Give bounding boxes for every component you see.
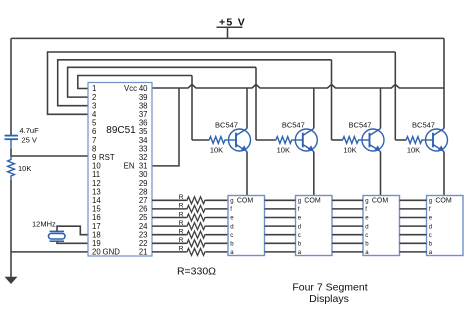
wire: Rd to display1 xyxy=(206,225,228,227)
label R (c) xyxy=(179,229,184,236)
svg-text:R: R xyxy=(179,211,184,218)
svg-text:R: R xyxy=(179,203,184,210)
wire: rail from P1.0 pin1 to Q1 base xyxy=(78,76,192,141)
svg-text:d: d xyxy=(429,224,432,230)
display DS4 7-segment xyxy=(427,196,464,256)
svg-text:Four 7 Segment: Four 7 Segment xyxy=(292,281,367,293)
wire: pin24 to Rd xyxy=(152,225,186,227)
resistor 10K base Q1 xyxy=(209,137,226,144)
wire: Ra to display1 xyxy=(206,251,228,253)
svg-text:R=330Ω: R=330Ω xyxy=(177,266,216,278)
svg-text:Vcc: Vcc xyxy=(124,84,137,93)
wire: rail from P1.3 pin4 to Q4 base xyxy=(48,52,396,140)
svg-text:g: g xyxy=(230,199,233,205)
label 10K base Q1 xyxy=(210,146,223,155)
wire: Rg to display1 xyxy=(206,199,228,201)
svg-text:Displays: Displays xyxy=(309,293,349,305)
wire: Q1 emitter to display COM xyxy=(246,152,248,196)
wire: crystal top to pin18 xyxy=(57,226,88,235)
svg-text:c: c xyxy=(298,233,301,239)
svg-text:c: c xyxy=(429,233,432,239)
svg-text:d: d xyxy=(230,224,233,230)
IC U1 right pin numbers 40-21 xyxy=(139,84,148,256)
resistor R f 330ohm xyxy=(186,205,206,212)
wire: pin25 to Re xyxy=(152,217,186,219)
wire: Q1 base feed xyxy=(192,139,209,141)
resistor 10K base Q4 xyxy=(406,137,423,144)
crystal X1 12MHz xyxy=(49,231,66,241)
wire: C1 to RST node xyxy=(10,139,12,156)
svg-text:COM: COM xyxy=(435,197,452,204)
wire: +5V top rail xyxy=(11,37,444,39)
wire: Rb to display1 xyxy=(206,242,228,244)
svg-text:COM: COM xyxy=(237,197,254,204)
svg-text:c: c xyxy=(230,233,233,239)
wire: 10K to GND rail xyxy=(10,180,12,252)
label R (a) xyxy=(179,246,184,253)
label COM DS2 xyxy=(304,197,321,204)
resistor 10K RST pulldown xyxy=(8,156,15,180)
svg-text:R: R xyxy=(179,229,184,236)
label 10K pulldown xyxy=(18,164,31,173)
wire: pin27 to Rg xyxy=(152,199,186,201)
wire: segment bus DS3 to DS4 xyxy=(400,200,427,252)
label BC547 Q3 xyxy=(349,121,372,130)
wire: VCC line pin40 to collectors (with hops) xyxy=(152,84,444,88)
resistor R e 330ohm xyxy=(186,214,206,221)
wire: GND rail to pin20 xyxy=(11,251,88,253)
svg-text:d: d xyxy=(298,224,301,230)
IC U1 part number 89C51 xyxy=(106,125,136,136)
wire: pin26 to Rf xyxy=(152,208,186,210)
label 12MHz xyxy=(32,220,56,229)
svg-text:10K: 10K xyxy=(18,164,31,173)
wire: Q3 emitter to display COM xyxy=(380,152,382,196)
label R (f) xyxy=(179,203,184,210)
label 10K base Q4 xyxy=(407,146,420,155)
wire: Q4 collector to VCC line xyxy=(443,88,445,129)
label R (b) xyxy=(179,237,184,244)
wire: segment bus DS1 to DS2 xyxy=(265,200,296,252)
resistor R c 330ohm xyxy=(186,231,206,238)
wire: Q4 emitter to display COM xyxy=(443,152,445,196)
power symbol +5V xyxy=(217,17,247,39)
resistor R g 330ohm xyxy=(186,197,206,204)
label BC547 Q2 xyxy=(282,121,305,130)
wire: crystal bottom to pin19 xyxy=(57,241,88,243)
resistor R a 330ohm xyxy=(186,248,206,255)
wire: pin22 to Rb xyxy=(152,242,186,244)
svg-text:R: R xyxy=(179,246,184,253)
svg-text:89C51: 89C51 xyxy=(106,125,136,136)
wire: drop to ground xyxy=(10,252,12,277)
svg-text:10K: 10K xyxy=(210,146,223,155)
label 10K base Q3 xyxy=(343,146,356,155)
svg-text:4.7uF: 4.7uF xyxy=(20,126,40,135)
label COM DS1 xyxy=(237,197,254,204)
label BC547 Q1 xyxy=(215,121,238,130)
resistor R b 330ohm xyxy=(186,240,206,247)
wire: Rc to display1 xyxy=(206,234,228,236)
label C1 value 4.7uF 25V xyxy=(20,126,40,144)
wire: rail from P1.2 pin3 to Q3 base xyxy=(58,60,332,140)
wire: +5V left drop to C1 xyxy=(10,38,12,135)
transistor Q1 BC547 xyxy=(226,129,251,152)
svg-text:COM: COM xyxy=(372,197,389,204)
label 10K base Q2 xyxy=(277,146,290,155)
wire: Q3 base feed xyxy=(332,139,343,141)
wire: rail from P1.1 pin2 to Q2 base xyxy=(68,67,256,140)
svg-text:R: R xyxy=(179,237,184,244)
labels segment pins g-a DS3 xyxy=(365,199,369,257)
svg-text:EN: EN xyxy=(124,162,135,171)
capacitor C1 4.7uF plates xyxy=(5,136,19,140)
transistor Q3 BC547 xyxy=(359,129,384,152)
label COM DS4 xyxy=(435,197,452,204)
wire: Q2 collector to VCC line xyxy=(313,88,315,129)
wire: pin23 to Rc xyxy=(152,234,186,236)
IC U1 89C51 body xyxy=(88,83,152,257)
svg-text:BC547: BC547 xyxy=(215,121,238,130)
wire: RST node to pin9 xyxy=(11,155,88,157)
svg-text:BC547: BC547 xyxy=(349,121,372,130)
svg-text:R: R xyxy=(179,220,184,227)
display DS2 7-segment xyxy=(296,196,333,256)
IC U1 pin labels Vcc RST EN GND xyxy=(99,84,137,256)
svg-text:g: g xyxy=(365,199,368,205)
display DS1 7-segment xyxy=(228,196,265,256)
svg-text:20: 20 xyxy=(92,248,101,257)
wire: Q3 collector to VCC line xyxy=(380,88,382,129)
wire: Q2 emitter to display COM xyxy=(313,152,315,196)
svg-text:BC547: BC547 xyxy=(282,121,305,130)
label R (g) xyxy=(179,194,184,201)
label R (d) xyxy=(179,220,184,227)
svg-text:10K: 10K xyxy=(277,146,290,155)
svg-text:10K: 10K xyxy=(343,146,356,155)
wire: Re to display1 xyxy=(206,217,228,219)
resistor R d 330ohm xyxy=(186,223,206,230)
labels segment pins g-a DS1 xyxy=(230,199,234,257)
svg-text:12MHz: 12MHz xyxy=(32,220,56,229)
label R (e) xyxy=(179,211,184,218)
label R=330 ohm xyxy=(177,266,216,278)
wire: EN pin31 tie to VCC xyxy=(152,88,179,166)
svg-text:g: g xyxy=(429,199,432,205)
labels segment pins g-a DS4 xyxy=(429,199,433,257)
resistor 10K base Q2 xyxy=(275,137,292,144)
wire: +5V right drop to VCC line xyxy=(443,38,445,88)
resistor 10K base Q3 xyxy=(342,137,359,144)
caption Four 7 Segment Displays xyxy=(292,281,367,305)
svg-text:10K: 10K xyxy=(407,146,420,155)
svg-text:R: R xyxy=(179,194,184,201)
wire: Q1 collector to VCC line xyxy=(246,88,248,129)
svg-text:COM: COM xyxy=(304,197,321,204)
svg-text:BC547: BC547 xyxy=(412,121,435,130)
transistor Q2 BC547 xyxy=(292,129,317,152)
wire: segment bus DS2 to DS3 xyxy=(332,200,363,252)
wire: Q2 base feed xyxy=(256,139,275,141)
svg-text:c: c xyxy=(365,233,368,239)
IC U1 left pin numbers 1-20 xyxy=(92,84,101,256)
svg-text:g: g xyxy=(298,199,301,205)
ground symbol xyxy=(5,277,18,284)
label COM DS3 xyxy=(372,197,389,204)
label BC547 Q4 xyxy=(412,121,435,130)
transistor Q4 BC547 xyxy=(423,129,448,152)
labels segment pins g-a DS2 xyxy=(298,199,302,257)
svg-text:d: d xyxy=(365,224,368,230)
display DS3 7-segment xyxy=(363,196,400,256)
svg-text:RST: RST xyxy=(99,153,115,162)
wire: Rf to display1 xyxy=(206,208,228,210)
svg-text:25 V: 25 V xyxy=(22,136,37,145)
svg-text:GND: GND xyxy=(103,248,121,257)
svg-text:21: 21 xyxy=(139,248,148,257)
wire: Q4 base feed xyxy=(395,139,405,141)
wire: pin21 to Ra xyxy=(152,251,186,253)
